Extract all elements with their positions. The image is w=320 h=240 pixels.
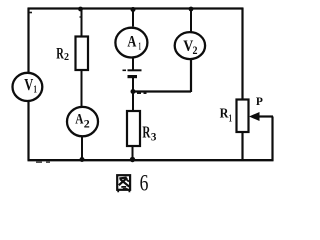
node junction bottom of R3 branch xyxy=(130,157,135,162)
wire R1 to bottom bus xyxy=(241,132,243,161)
wire dash artifacts on mid wire xyxy=(137,92,147,94)
wire tick at top-left corner xyxy=(30,12,33,14)
ammeter A2 xyxy=(67,107,98,136)
wire R3 to bottom bus xyxy=(132,146,134,160)
svg-text:2: 2 xyxy=(64,51,69,63)
wire tick on R2 branch xyxy=(80,16,82,18)
node junction top of V2 branch xyxy=(189,7,194,12)
slider arrow P of rheostat xyxy=(257,115,273,117)
wire left branch down to V1 xyxy=(27,8,29,73)
svg-text:2: 2 xyxy=(193,43,198,57)
svg-text:6: 6 xyxy=(140,171,149,196)
node junction battery bottom xyxy=(131,89,136,94)
wire node to V2 bottom xyxy=(133,60,191,93)
resistor R2 xyxy=(76,37,89,71)
wire top bus xyxy=(28,7,244,9)
svg-text:A: A xyxy=(75,111,83,127)
svg-text:1: 1 xyxy=(229,114,232,125)
svg-text:1: 1 xyxy=(139,41,142,53)
svg-text:R: R xyxy=(56,46,64,63)
node junction bottom of A2 branch xyxy=(80,157,85,162)
resistor R3 xyxy=(127,111,140,146)
wire A2 to bottom bus xyxy=(81,137,83,160)
wire top bus to V2 xyxy=(190,9,192,32)
node junction top of R2 branch xyxy=(78,7,83,12)
battery negative plate xyxy=(128,75,138,78)
node junction top of A1 branch xyxy=(131,7,136,12)
svg-text:A: A xyxy=(127,33,137,50)
wire node to R3 xyxy=(132,92,134,112)
wire dash artifacts on bottom bus xyxy=(36,161,50,163)
svg-text:2: 2 xyxy=(84,117,90,131)
rheostat R1 xyxy=(237,100,249,133)
battery positive plate xyxy=(128,69,142,71)
voltmeter V1 xyxy=(13,73,43,101)
wire top bus to R2 xyxy=(81,9,83,38)
caption glyph 图 xyxy=(117,175,130,192)
svg-text:V: V xyxy=(24,75,33,94)
wire V1 to bottom bus xyxy=(27,102,29,161)
wire battery to node xyxy=(132,78,134,92)
svg-text:R: R xyxy=(142,123,151,142)
wire right branch down to R1 xyxy=(241,8,243,101)
voltmeter V2 xyxy=(175,32,205,59)
svg-text:3: 3 xyxy=(151,130,157,144)
svg-text:P: P xyxy=(256,94,263,108)
svg-text:1: 1 xyxy=(34,83,37,95)
wire top bus to A1 xyxy=(132,9,134,27)
wire bottom bus xyxy=(28,159,274,161)
ammeter A1 xyxy=(115,28,147,58)
svg-text:R: R xyxy=(220,106,230,121)
battery small dash left xyxy=(123,69,127,71)
wire slider to bottom bus xyxy=(271,117,273,162)
wire R2 to A2 xyxy=(81,70,83,107)
wire A1 to battery xyxy=(132,59,134,70)
